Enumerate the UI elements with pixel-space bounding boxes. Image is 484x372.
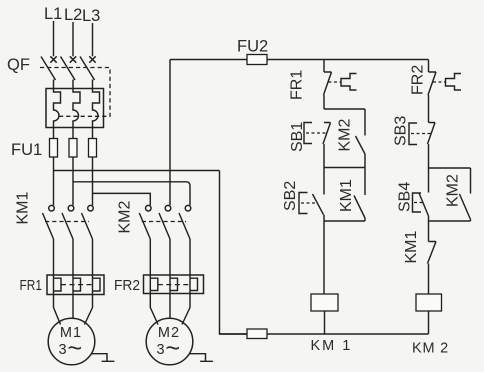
contactor KM2 pole 3 bbox=[179, 205, 191, 239]
svg-text:KM 1: KM 1 bbox=[311, 338, 353, 354]
FR1 linkage dashed bbox=[61, 284, 93, 286]
wire box to fuse 3 bbox=[92, 128, 94, 139]
FR2 trip actuator bbox=[446, 74, 462, 91]
button SB4 operator bbox=[413, 193, 422, 212]
svg-text:KM2: KM2 bbox=[117, 201, 134, 234]
SB4 dashed link bbox=[414, 202, 425, 204]
contactor KM1 linkage dashed bbox=[45, 221, 89, 223]
wire FU2 riser down to KM2 pole2 bbox=[169, 60, 171, 206]
wire FR1 to motor M1 middle bbox=[72, 295, 74, 319]
svg-text:3: 3 bbox=[59, 342, 67, 358]
svg-text:FR1: FR1 bbox=[20, 277, 43, 294]
svg-text:L1: L1 bbox=[44, 5, 62, 23]
svg-text:~: ~ bbox=[68, 335, 83, 363]
wire KM1 pole3 to FR1 bbox=[92, 239, 94, 275]
wire QF blade to box pole3 bbox=[92, 80, 94, 89]
thermal relay FR2 box bbox=[144, 275, 204, 294]
FR1 heater pole 1 bbox=[54, 275, 62, 295]
FR1 heater pole 2 bbox=[73, 275, 81, 295]
wire L1 incoming bbox=[53, 21, 55, 56]
wire QF blade to box pole2 bbox=[72, 80, 74, 89]
button SB1 operator bbox=[304, 123, 312, 144]
button SB2 operator bbox=[299, 193, 308, 214]
fuse FU1 pole 3 bbox=[89, 139, 97, 158]
wire KM2 pole1 to FR2 bbox=[149, 239, 151, 275]
wire L3 incoming bbox=[92, 23, 94, 56]
contact KM2 NO latch bbox=[460, 168, 471, 221]
fuse on bottom bus bbox=[247, 329, 267, 339]
contactor KM1 pole 1 bbox=[43, 205, 55, 239]
svg-text:FU2: FU2 bbox=[237, 38, 268, 56]
breaker QF pole 1 cross mark bbox=[50, 56, 56, 62]
wire L2 incoming bbox=[72, 22, 74, 56]
wire branch2 mid bbox=[428, 221, 430, 242]
svg-text:FU1: FU1 bbox=[11, 141, 42, 159]
svg-text:KM1: KM1 bbox=[15, 192, 32, 225]
wire control top bus bbox=[170, 59, 429, 61]
FR2 linkage dashed bbox=[158, 284, 190, 286]
contactor KM2 pole 1 bbox=[139, 205, 151, 239]
coil KM2 bbox=[416, 294, 442, 311]
contact KM2 NO aux bbox=[356, 109, 366, 168]
contactor KM1 pole 2 bbox=[62, 205, 74, 239]
breaker QF pole 3 cross mark bbox=[89, 56, 95, 62]
breaker QF pole 1 blade bbox=[41, 57, 56, 81]
wire parallel box2 bottom bbox=[429, 220, 471, 222]
wire parallel box1 top bbox=[324, 108, 365, 110]
motor M2 circle bbox=[146, 318, 193, 365]
wire coil KM2 to bus bbox=[428, 311, 430, 334]
wire FR2 to motor M2 right bbox=[182, 294, 190, 325]
wire box to fuse 1 bbox=[53, 128, 55, 139]
svg-text:3: 3 bbox=[157, 342, 165, 358]
wire branch2 top bbox=[428, 60, 430, 73]
svg-text:SB2: SB2 bbox=[282, 181, 299, 211]
FR1 actuator dashed link bbox=[329, 81, 342, 83]
FR2 heater pole 2 bbox=[170, 275, 178, 294]
svg-text:SB3: SB3 bbox=[393, 116, 410, 146]
svg-text:FR2: FR2 bbox=[410, 65, 427, 95]
contact FR1 NC bbox=[324, 72, 332, 109]
svg-text:FR2: FR2 bbox=[114, 277, 140, 294]
wire control bottom bus bbox=[220, 333, 429, 335]
breaker QF linkage dashed bbox=[40, 68, 110, 117]
breaker QF pole 3 blade bbox=[80, 57, 95, 81]
wire FR2 to motor M2 middle bbox=[169, 294, 171, 319]
contactor KM2 pole 2 bbox=[159, 205, 171, 239]
contact FR2 NC bbox=[428, 72, 436, 123]
contactor KM2 linkage dashed bbox=[142, 221, 186, 223]
FR1 heater pole 3 bbox=[93, 275, 101, 295]
wire parallel box1 middle bbox=[324, 167, 365, 169]
ground M2 bbox=[189, 354, 213, 362]
wire KM1 pole1 to FR1 bbox=[53, 239, 55, 275]
svg-text:FR1: FR1 bbox=[289, 70, 306, 100]
wire FR1 to motor M1 right bbox=[85, 295, 93, 325]
wire KM2 pole2 to FR2 bbox=[169, 239, 171, 275]
svg-text:SB4: SB4 bbox=[397, 182, 414, 212]
wire fuse1 down to KM1 pole1 bbox=[53, 157, 55, 205]
svg-text:~: ~ bbox=[166, 335, 181, 363]
coil KM1 bbox=[311, 294, 338, 311]
breaker QF trip-unit box bbox=[46, 89, 104, 128]
FR2 heater pole 1 bbox=[150, 275, 158, 294]
wire box to fuse 2 bbox=[72, 128, 74, 139]
ground M1 bbox=[91, 354, 114, 362]
svg-text:KM2: KM2 bbox=[337, 119, 354, 152]
wire coil KM1 to bus bbox=[324, 311, 326, 334]
wire tap L3 horizontal to KM2 pole1 bbox=[93, 193, 151, 205]
button SB3 NC contact bbox=[428, 123, 436, 169]
thermal relay FR1 box bbox=[47, 275, 104, 295]
svg-text:KM1: KM1 bbox=[403, 231, 420, 264]
wire QF blade to box pole1 bbox=[53, 80, 55, 89]
fuse FU1 pole 1 bbox=[50, 139, 58, 158]
wire KM1 pole2 to FR1 bbox=[72, 239, 74, 275]
wire control riser down to bottom bus bbox=[220, 171, 248, 335]
wire parallel box1 bottom bbox=[324, 220, 365, 222]
wire tap L2 horizontal to KM2 poles bbox=[73, 182, 190, 206]
contactor KM1 pole 3 bbox=[82, 205, 94, 239]
SB1 dashed link bbox=[306, 132, 327, 134]
FR1 trip actuator bbox=[341, 74, 357, 91]
wire branch1 top bbox=[323, 60, 325, 73]
motor M1 circle bbox=[48, 318, 95, 365]
breaker QF pole 2 blade bbox=[61, 57, 76, 81]
button SB4 NO contact bbox=[419, 168, 429, 221]
FR2 heater pole 3 bbox=[190, 275, 198, 294]
wire FR1 to motor M1 left bbox=[54, 295, 61, 325]
svg-text:L2: L2 bbox=[64, 6, 82, 24]
svg-text:KM2: KM2 bbox=[445, 174, 462, 207]
wire FR2 to motor M2 left bbox=[150, 294, 158, 325]
wire fuse2 down to KM1 pole2 bbox=[72, 157, 74, 205]
svg-text:L3: L3 bbox=[82, 7, 100, 25]
QF thermal element pole 2 bbox=[73, 89, 80, 128]
svg-text:KM1: KM1 bbox=[338, 179, 355, 212]
button SB2 NO contact bbox=[313, 168, 325, 222]
contact KM1 NC interlock bbox=[428, 242, 437, 295]
fuse FU1 pole 2 bbox=[69, 139, 77, 158]
svg-text:QF: QF bbox=[7, 56, 30, 74]
wire fuse3 down to KM1 pole3 bbox=[92, 157, 94, 205]
SB3 dashed link bbox=[411, 133, 431, 135]
wire KM2 pole3 to FR2 bbox=[189, 239, 191, 275]
button SB1 NC contact bbox=[323, 123, 331, 168]
breaker QF pole 2 cross mark bbox=[70, 56, 76, 62]
motor M1 3-phase mark bbox=[59, 335, 83, 363]
FR2 actuator dashed link bbox=[433, 81, 446, 83]
fuse FU2 bbox=[247, 55, 267, 65]
QF thermal element pole 1 bbox=[54, 89, 61, 128]
svg-text:KM 2: KM 2 bbox=[412, 341, 449, 357]
wire branch1 to coil bbox=[323, 221, 325, 294]
wire parallel box2 top bbox=[429, 167, 471, 169]
contact KM1 NO aux bbox=[354, 168, 365, 222]
SB2 dashed link bbox=[301, 202, 315, 204]
button SB3 operator bbox=[409, 123, 417, 145]
QF thermal element pole 3 bbox=[93, 89, 100, 128]
motor M2 3-phase mark bbox=[157, 335, 181, 363]
wire tap L1 horizontal to control riser bbox=[54, 170, 220, 172]
